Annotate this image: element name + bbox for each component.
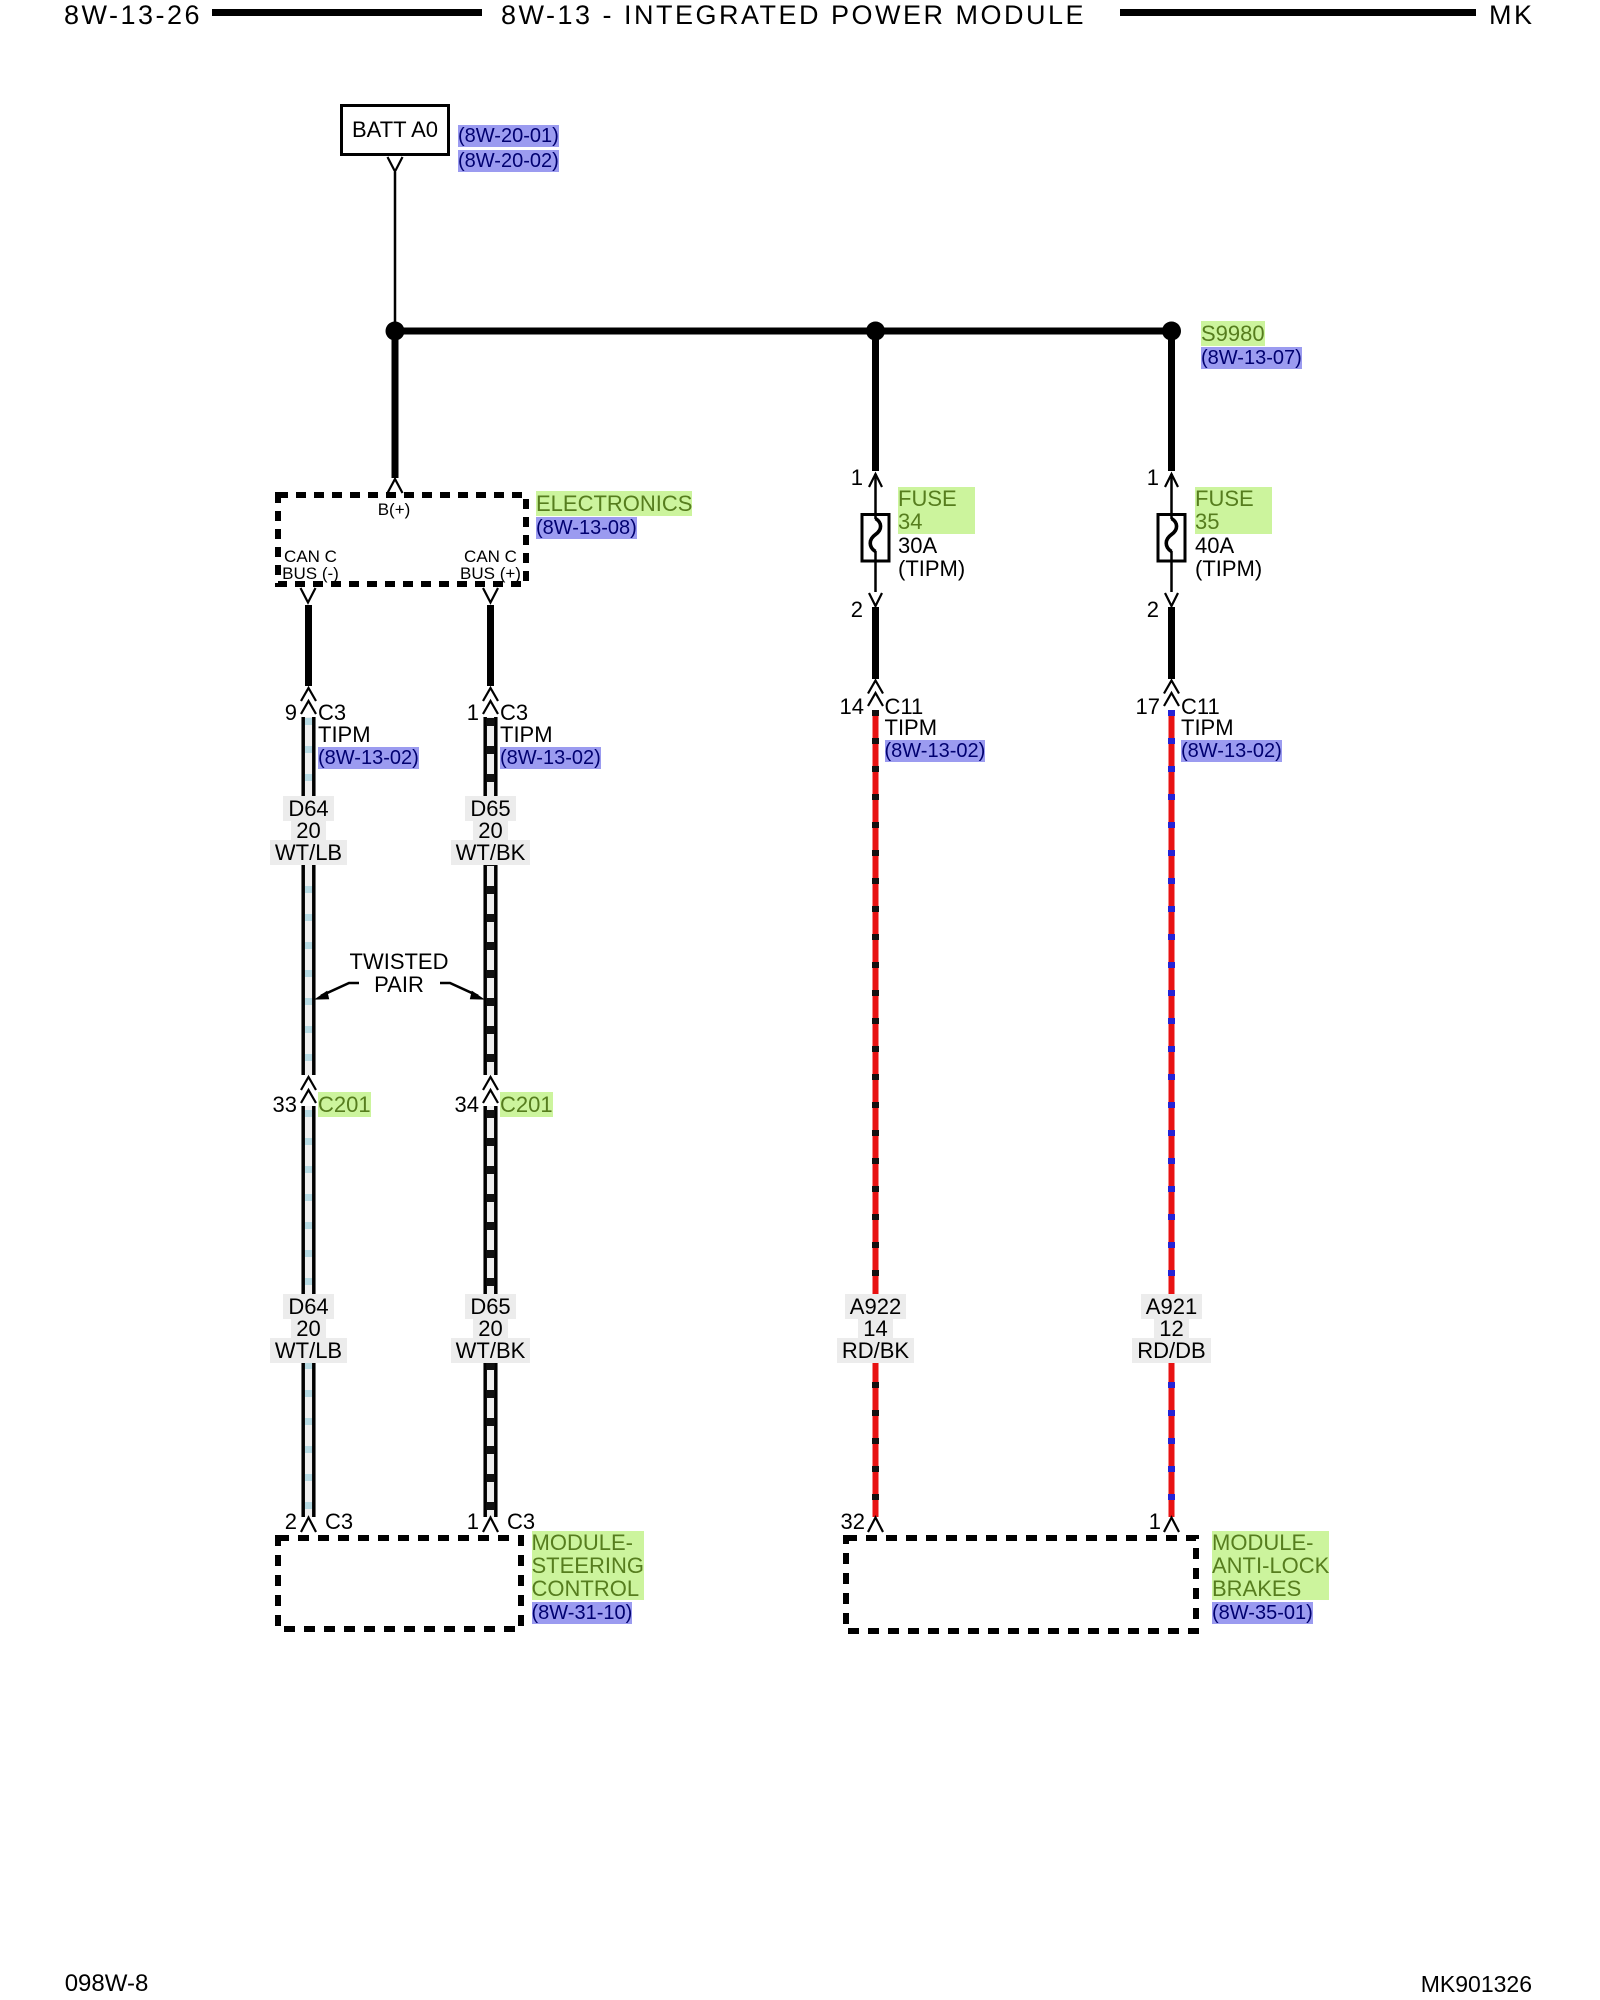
header right rule (1120, 9, 1476, 16)
connector C11 pin 14 double caret (868, 681, 883, 707)
wire D65 WT/BK segment 1 (485, 717, 496, 1075)
fuse F35 pin 2 arrow (1165, 551, 1178, 606)
wire D64 WT/LB segment 2 (303, 1106, 314, 1517)
connector pin 1 abs (1111, 1511, 1161, 1533)
connector C3 bottom left (325, 1511, 353, 1533)
splice node S9980 dot 2 (866, 322, 885, 341)
wire A921 RD/DB (1169, 710, 1175, 1517)
module steering control caret pin 1 (483, 1518, 498, 1533)
footer left 098W-8 (65, 1972, 149, 1996)
module abs caret pin 1 (1164, 1518, 1179, 1533)
fuse F34 pin number 1 (813, 467, 863, 489)
pin label CAN C BUS (-) (270, 548, 351, 582)
battery BATT A0 box (342, 106, 449, 155)
module anti-lock brakes dashed box (846, 1538, 1196, 1631)
module anti-lock brakes label (8W-35-01) (1212, 1531, 1329, 1625)
module steering control dashed box (278, 1538, 521, 1629)
connector C11 TIPM (8W-13-02) right (1181, 696, 1282, 763)
connector C3 pin 9 double caret (301, 688, 316, 714)
connector pin 34 (429, 1094, 479, 1116)
wire drop to fuse 35 (1168, 331, 1175, 471)
fuse F34 pin number 2 (813, 599, 863, 621)
wire drop to fuse 34 (872, 331, 879, 471)
wire D65 WT/BK segment 2 (485, 1106, 496, 1517)
fuse F34 pin 2 arrow (869, 551, 882, 606)
module abs caret pin 32 (868, 1518, 883, 1533)
fuse F35 label (1195, 487, 1272, 581)
fuse F34 body box (862, 515, 889, 562)
electronics module dashed box (278, 495, 526, 584)
fuse F35 pin number 2 (1109, 599, 1159, 621)
footer right MK901326 (1332, 1972, 1532, 1996)
fuse F34 label (898, 487, 975, 581)
twisted pair note (344, 950, 454, 996)
connector C3 TIPM (8W-13-02) left (318, 702, 419, 769)
battery reference links (8W-20-01)(8W-20-02) (458, 124, 559, 174)
connector C201 pin 34 double caret (483, 1077, 498, 1103)
connector pin 17 (1110, 696, 1160, 718)
connector C3 bottom right (507, 1511, 535, 1533)
module steering control label (8W-31-10) (532, 1531, 644, 1625)
header title (441, 2, 1146, 29)
wire label D64 20 WT/LB lower (258, 1296, 359, 1362)
connector pin 32 (815, 1511, 865, 1533)
header right label MK (1489, 2, 1535, 29)
connector C11 pin 17 double caret (1164, 681, 1179, 707)
caret into electronics box (388, 479, 403, 493)
wire label A922 14 RD/BK (825, 1296, 926, 1362)
wire CAN C bus plus upper (487, 605, 494, 686)
connector C201 right (500, 1094, 553, 1116)
splice node S9980 dot 3 (1162, 322, 1181, 341)
fuse F34 pin 1 arrow (869, 474, 882, 519)
connector C201 left (318, 1094, 371, 1116)
splice label S9980 (8W-13-07) (1201, 322, 1302, 370)
wire label D64 20 WT/LB upper (258, 798, 359, 864)
header left rule (212, 9, 482, 16)
fuse F35 body box (1158, 515, 1185, 562)
wire fuse 35 output (1168, 607, 1175, 679)
wire drop to electronics B(+) (392, 331, 399, 478)
wire label D65 20 WT/BK upper (440, 798, 541, 864)
wire D64 WT/LB segment 1 (303, 717, 314, 1075)
ELECTRONICS box label (8W-13-08) (536, 492, 692, 540)
twisted pair arrow left (314, 983, 359, 1000)
fuse F35 element squiggle (1166, 519, 1176, 552)
twisted pair arrow right (440, 983, 485, 1000)
wire A922 RD/BK (873, 710, 879, 1517)
connector pin 2 (247, 1511, 297, 1533)
splice node S9980 dot 1 (386, 322, 405, 341)
connector pin 9 (247, 702, 297, 724)
battery terminal V symbol (388, 157, 403, 172)
connector pin 33 (247, 1094, 297, 1116)
fuse F35 pin number 1 (1109, 467, 1159, 489)
wire label A921 12 RD/DB (1121, 1296, 1222, 1362)
connector pin 14 (814, 696, 864, 718)
battery label BATT A0 (340, 119, 450, 141)
connector pin 1 (429, 702, 479, 724)
connector C11 TIPM (8W-13-02) left (885, 696, 986, 763)
electronics CAN C BUS (-) exit V (301, 588, 316, 603)
electronics CAN C BUS (+) exit V (483, 588, 498, 603)
wire fuse 34 output (872, 607, 879, 679)
wire battery lead A0 (394, 172, 397, 331)
pin label CAN C BUS (+) (450, 548, 531, 582)
connector C201 pin 33 double caret (301, 1077, 316, 1103)
connector C3 TIPM (8W-13-02) right (500, 702, 601, 769)
pin label B(+) (344, 501, 444, 518)
connector C3 pin 1 double caret (483, 688, 498, 714)
header left page number (64, 2, 202, 29)
wire bus S9980 (395, 328, 1172, 335)
fuse F35 pin 1 arrow (1165, 474, 1178, 519)
wire label D65 20 WT/BK lower (440, 1296, 541, 1362)
module steering control caret pin 2 (301, 1518, 316, 1533)
connector pin 1 bottom (429, 1511, 479, 1533)
fuse F34 element squiggle (870, 519, 880, 552)
wire CAN C bus minus upper (305, 605, 312, 686)
